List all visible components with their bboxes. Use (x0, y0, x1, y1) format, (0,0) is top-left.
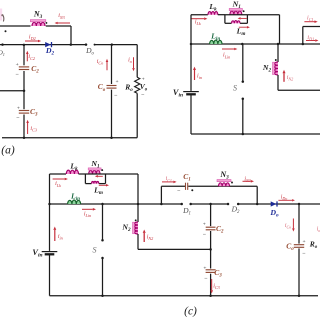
svg-text:iN2: iN2 (287, 75, 294, 82)
svg-text:iCo: iCo (285, 223, 291, 230)
svg-text:+: + (16, 62, 19, 68)
svg-text:(a): (a) (1, 145, 15, 157)
svg-text:−: − (16, 72, 20, 78)
svg-text:+: + (302, 239, 305, 245)
svg-text:iC3: iC3 (30, 126, 37, 133)
svg-text:iLin: iLin (84, 212, 91, 219)
svg-text:io: io (128, 58, 132, 65)
svg-text:iLk: iLk (55, 181, 61, 188)
svg-text:iin: iin (197, 74, 202, 81)
svg-text:iC3: iC3 (213, 284, 220, 291)
svg-text:iD2: iD2 (29, 34, 36, 41)
svg-text:iin: iin (58, 234, 63, 241)
svg-text:io: io (317, 226, 320, 233)
svg-text:+: + (17, 105, 20, 111)
svg-text:iCo: iCo (97, 59, 104, 66)
svg-text:S: S (93, 246, 97, 255)
svg-text:iN3: iN3 (244, 176, 250, 183)
svg-text:(c): (c) (184, 306, 197, 318)
svg-text:+: + (115, 79, 118, 85)
svg-text:iLk: iLk (195, 20, 201, 27)
svg-text:iC2: iC2 (28, 54, 35, 61)
svg-text:+: + (142, 76, 145, 82)
svg-text:S: S (233, 84, 237, 93)
svg-text:iN2: iN2 (147, 235, 154, 242)
svg-text:iC1: iC1 (166, 176, 172, 183)
svg-text:+: + (203, 221, 206, 227)
svg-text:iC1: iC1 (307, 15, 314, 22)
svg-text:−: − (302, 251, 306, 257)
svg-text:iN3: iN3 (58, 13, 65, 20)
svg-text:iD1: iD1 (307, 35, 314, 42)
svg-text:iDo: iDo (281, 195, 288, 202)
svg-text:+: + (203, 266, 206, 272)
svg-text:iLin: iLin (223, 53, 230, 60)
